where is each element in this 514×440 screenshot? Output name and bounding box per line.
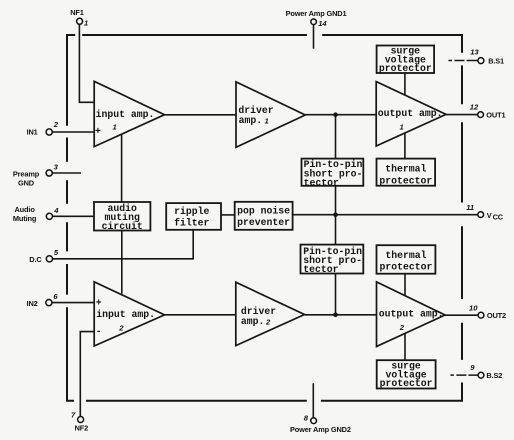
IC boundary top border	[66, 34, 463, 36]
svg-text:input amp.: input amp.	[96, 109, 155, 120]
svg-text:Muting: Muting	[13, 214, 37, 223]
pin 7 NF2 terminal circle	[71, 411, 88, 433]
IC boundary right border	[461, 34, 463, 402]
svg-text:IN2: IN2	[27, 299, 38, 308]
op-amp triangle driver amp. 2	[236, 282, 305, 345]
svg-text:filter: filter	[174, 217, 209, 228]
wire Vcc line pop noise preventer to pin 11	[293, 214, 478, 216]
svg-text:1: 1	[84, 18, 88, 27]
wire NF1 pin1 to input amp 1 inverting input	[79, 24, 94, 102]
label driver amp. 1	[238, 105, 273, 126]
wire Vcc line to pin-to-pin protector 2	[335, 215, 337, 245]
wire Power Amp GND2 pin8 stub	[312, 383, 314, 418]
svg-text:2: 2	[399, 323, 405, 332]
label input amp. 2	[96, 297, 155, 337]
svg-text:preventer: preventer	[237, 217, 290, 228]
label pin-to-pin short protector 2	[303, 246, 362, 275]
svg-text:OUT2: OUT2	[487, 311, 506, 320]
wire pin-to-pin protector 2 to output line 2	[335, 274, 337, 315]
svg-text:NF2: NF2	[75, 424, 89, 433]
block audio muting circuit	[94, 202, 150, 231]
label thermal protector 1	[379, 164, 432, 187]
wire node A junction to pin-to-pin protector 1	[335, 115, 337, 159]
junction dot node C on output line 2	[333, 313, 338, 318]
svg-text:1: 1	[400, 122, 404, 131]
block pin-to-pin short protector 1	[302, 159, 364, 186]
pin 13 B.S1 terminal circle	[470, 48, 504, 66]
block pop noise preventer	[235, 202, 293, 230]
svg-text:ripple: ripple	[174, 206, 209, 217]
junction dot node B on Vcc line	[333, 212, 338, 217]
label input amp. 1	[95, 109, 154, 137]
svg-text:4: 4	[53, 206, 59, 215]
svg-text:protector: protector	[379, 175, 432, 186]
label output amp. 1	[378, 108, 443, 131]
wire surge voltage protector 1 to B.S1 pin13 dashed	[449, 60, 478, 62]
svg-text:2: 2	[265, 318, 271, 327]
svg-text:input amp.: input amp.	[96, 309, 155, 320]
op-amp triangle driver amp. 1	[236, 82, 305, 148]
svg-text:12: 12	[470, 102, 479, 111]
svg-text:Power Amp GND2: Power Amp GND2	[290, 425, 351, 434]
pin 11 Vcc terminal circle	[466, 203, 504, 221]
block thermal protector 1	[377, 159, 436, 186]
svg-text:thermal: thermal	[385, 250, 426, 261]
wire audio muting circuit to input amp 2	[121, 231, 123, 294]
wire input amp 1 to driver amp 1	[165, 114, 237, 116]
svg-text:tector: tector	[304, 177, 339, 188]
junction dot node A on output line 1	[333, 112, 338, 117]
wire Power Amp GND1 pin14 stub	[313, 25, 315, 49]
svg-text:-: -	[96, 326, 102, 337]
svg-text:output amp.: output amp.	[378, 108, 443, 119]
label output amp. 2	[379, 309, 444, 333]
pin 12 OUT1 terminal circle	[470, 102, 506, 119]
svg-text:B.S2: B.S2	[486, 371, 502, 380]
svg-text:1: 1	[113, 123, 117, 132]
svg-text:thermal: thermal	[385, 164, 426, 175]
svg-text:D.C: D.C	[29, 255, 42, 264]
svg-text:2: 2	[118, 324, 124, 333]
IC boundary bottom border	[66, 400, 463, 402]
svg-text:B.S1: B.S1	[488, 56, 504, 65]
label ripple filter	[174, 206, 209, 229]
op-amp triangle input amp. 2	[94, 282, 164, 346]
label audio muting circuit	[102, 203, 143, 232]
block surge voltage protector 1	[377, 46, 435, 74]
wire driver amp 1 to output amp 1	[305, 114, 376, 116]
op-amp triangle output amp. 1	[376, 82, 446, 146]
pin 4 Audio Muting terminal circle	[13, 205, 59, 223]
pin 8 Power Amp GND2 terminal circle	[290, 414, 351, 435]
pin 1 NF1 terminal circle	[70, 8, 88, 28]
svg-text:amp.: amp.	[239, 115, 263, 126]
svg-text:GND: GND	[18, 179, 35, 188]
wire NF2 pin7 to input amp 2 inverting input	[80, 332, 94, 417]
wire output amp 1 to OUT1 pin12	[446, 114, 478, 116]
wire Preamp GND pin3 stub	[52, 172, 81, 174]
block thermal protector 2	[377, 245, 436, 274]
wire output amp 1 to thermal protector 1	[404, 134, 406, 159]
wire thermal protector 2 to output amp 2	[404, 274, 406, 296]
pin 14 Power Amp GND1 terminal circle	[286, 9, 347, 28]
label pin-to-pin short protector 1	[304, 159, 363, 188]
wire output amp 2 to OUT2 pin10	[445, 314, 478, 316]
svg-text:protector: protector	[380, 378, 433, 389]
svg-text:Preamp: Preamp	[13, 169, 40, 178]
pin 3 Preamp GND terminal circle	[13, 163, 59, 188]
block surge voltage protector 2	[377, 360, 436, 388]
wire input amp 1 to audio muting circuit	[121, 134, 123, 202]
svg-text:IN1: IN1	[27, 128, 38, 137]
label driver amp. 2	[241, 306, 276, 327]
svg-text:10: 10	[469, 304, 478, 313]
pin 5 D.C terminal circle	[29, 248, 59, 264]
wire IN1 pin2 to input amp 1	[52, 131, 94, 133]
label surge voltage protector 2	[380, 361, 433, 390]
block pin-to-pin short protector 2	[301, 245, 364, 274]
svg-text:protector: protector	[379, 63, 432, 74]
wire input amp 2 to driver amp 2	[165, 314, 236, 316]
wire surge voltage protector 1 to output amp 1	[404, 73, 406, 95]
svg-text:11: 11	[466, 203, 474, 212]
svg-text:amp.: amp.	[241, 316, 265, 327]
wire D.C pin5 to ripple filter	[53, 230, 194, 259]
svg-text:pop noise: pop noise	[237, 205, 290, 216]
pin 10 OUT2 terminal circle	[469, 304, 506, 321]
svg-text:CC: CC	[493, 213, 504, 222]
label thermal protector 2	[379, 250, 432, 273]
svg-text:+: +	[95, 126, 101, 137]
op-amp triangle input amp. 1	[94, 81, 164, 146]
wire ripple filter to pop noise preventer	[221, 214, 235, 216]
pin 2 IN1 terminal circle	[27, 120, 59, 137]
svg-text:tector: tector	[303, 264, 338, 275]
svg-text:14: 14	[318, 19, 327, 28]
svg-text:2: 2	[53, 120, 59, 129]
svg-text:NF1: NF1	[70, 8, 84, 17]
label pop noise preventer	[237, 205, 290, 228]
svg-text:circuit: circuit	[102, 221, 143, 232]
svg-text:Audio: Audio	[15, 205, 36, 214]
svg-text:output amp.: output amp.	[379, 309, 444, 320]
svg-text:13: 13	[470, 48, 479, 57]
block ripple filter	[166, 203, 221, 230]
op-amp triangle output amp. 2	[377, 282, 446, 347]
IC boundary left border	[66, 34, 68, 402]
label surge voltage protector 1	[379, 46, 432, 75]
svg-text:+: +	[96, 297, 102, 308]
wire pin-to-pin protector 1 to Vcc line	[335, 186, 337, 215]
wire output amp 2 to surge voltage protector 2	[404, 334, 406, 360]
wire IN2 pin6 to input amp 2	[52, 302, 94, 304]
svg-text:Power Amp GND1: Power Amp GND1	[286, 9, 347, 18]
svg-text:V: V	[487, 211, 492, 220]
wire surge voltage protector 2 to B.S2 pin9 dashed	[450, 374, 478, 376]
svg-text:OUT1: OUT1	[486, 110, 505, 119]
pin 9 B.S2 terminal circle	[470, 363, 502, 380]
svg-text:protector: protector	[379, 262, 432, 273]
pin 6 IN2 terminal circle	[27, 292, 59, 308]
wire driver amp 2 to output amp 2	[305, 314, 377, 316]
svg-text:1: 1	[265, 117, 269, 126]
wire Audio Muting pin4 to audio muting circuit	[53, 215, 95, 217]
